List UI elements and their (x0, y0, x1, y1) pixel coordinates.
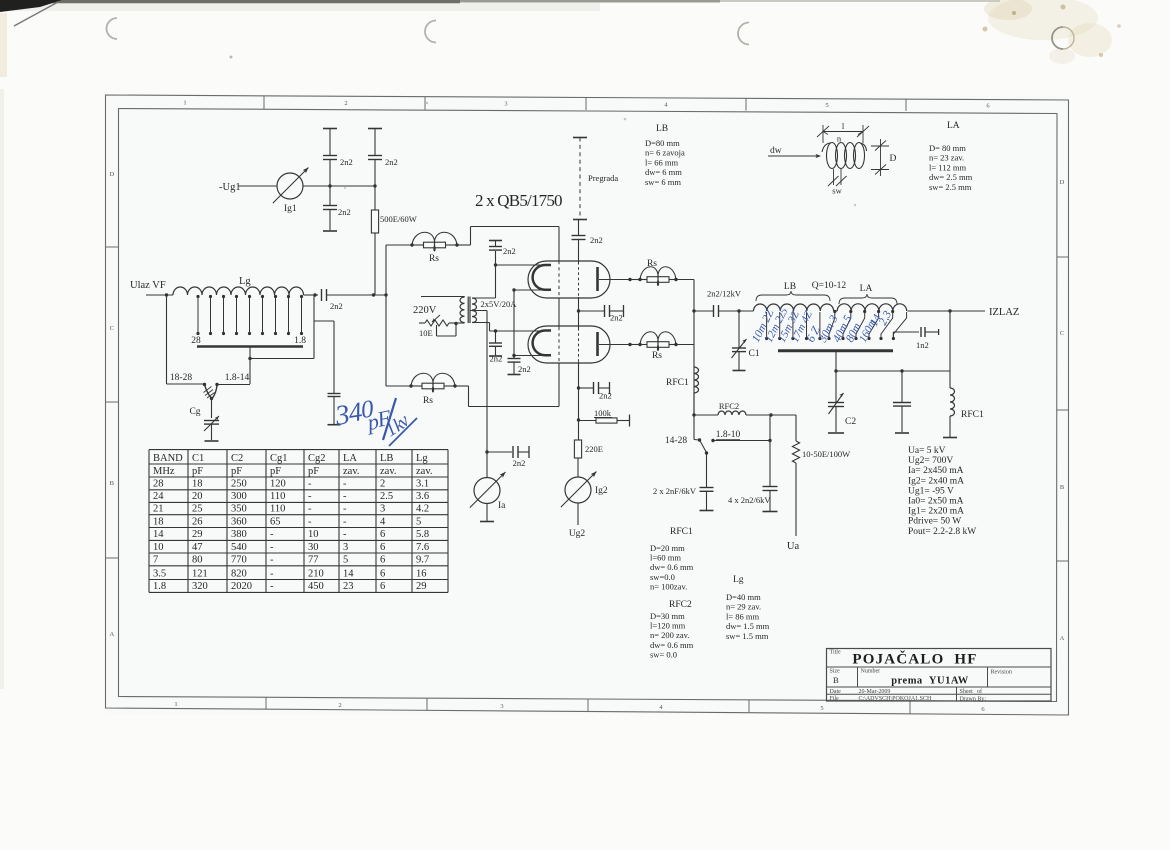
node anode V2 (628, 343, 631, 346)
svg-text:of: of (977, 688, 982, 695)
svg-text:110: 110 (270, 504, 285, 515)
wire (374, 129, 376, 156)
svg-text:6: 6 (380, 555, 385, 566)
svg-text:220E: 220E (585, 444, 603, 454)
variable capacitor C2 (835, 371, 837, 402)
svg-text:File: File (830, 696, 840, 702)
svg-text:2020: 2020 (231, 581, 252, 592)
svg-text:Title: Title (830, 650, 841, 656)
svg-text:Pregrada: Pregrada (588, 173, 618, 183)
svg-text:4.2: 4.2 (416, 504, 429, 515)
wire (386, 244, 412, 246)
hole punch 3 (738, 23, 749, 45)
svg-text:Ug1= -95 V: Ug1= -95 V (908, 486, 954, 496)
svg-text:-: - (270, 542, 274, 553)
svg-text:250: 250 (231, 479, 247, 490)
svg-text:450: 450 (308, 581, 324, 592)
frame bottom zone ticks (265, 697, 267, 709)
frame outer border (106, 95, 1069, 715)
wire bias to input node (374, 233, 376, 295)
svg-text:-: - (343, 504, 347, 515)
wire tank output (908, 310, 986, 312)
svg-text:Date: Date (830, 689, 842, 695)
svg-text:16: 16 (416, 568, 427, 579)
suppressor Rs anode V2 (630, 344, 640, 346)
wire (329, 210, 331, 231)
tank bus bar (778, 349, 893, 352)
svg-text:RFC1: RFC1 (670, 527, 693, 537)
wire input (146, 294, 173, 296)
svg-text:sw=0.0: sw=0.0 (650, 572, 675, 582)
wire Ia to ground (486, 504, 488, 521)
wire (329, 129, 331, 156)
svg-text:LB: LB (380, 453, 393, 464)
svg-text:3.6: 3.6 (416, 491, 429, 502)
svg-text:dw= 6 mm: dw= 6 mm (645, 167, 682, 177)
svg-text:10E: 10E (419, 328, 433, 338)
wire output down (949, 311, 951, 371)
svg-text:26: 26 (192, 516, 203, 527)
svg-text:l= 86 mm: l= 86 mm (726, 611, 760, 621)
svg-text:9.7: 9.7 (416, 555, 429, 566)
hole punch 2 (425, 21, 436, 43)
svg-text:2 x 2nF/6kV: 2 x 2nF/6kV (653, 486, 697, 496)
svg-text:Number: Number (861, 669, 881, 675)
wire RFC2 node down (769, 415, 771, 486)
svg-text:5: 5 (343, 555, 348, 566)
grid line g1 (dashed in tubes) (558, 227, 560, 262)
coil drawing dimension sw (833, 169, 835, 185)
svg-text:2n2: 2n2 (338, 207, 351, 217)
svg-text:n= 23 zav.: n= 23 zav. (929, 153, 964, 163)
title block frame (827, 649, 1052, 702)
svg-text:1: 1 (183, 99, 186, 106)
svg-text:10: 10 (308, 529, 319, 540)
suppressor Rs anode V1 (630, 279, 640, 281)
svg-text:sw= 0.0: sw= 0.0 (650, 649, 677, 659)
svg-text:Ua= 5 kV: Ua= 5 kV (908, 446, 946, 456)
wire link under bus (250, 358, 314, 360)
svg-text:B: B (1060, 484, 1065, 491)
svg-text:D: D (109, 171, 114, 178)
svg-text:540: 540 (231, 542, 247, 553)
wire grid box bottom (469, 406, 560, 408)
svg-text:Lg: Lg (239, 276, 251, 287)
svg-text:4 x 2n2/6kV: 4 x 2n2/6kV (728, 495, 771, 505)
ground bar (328, 424, 341, 426)
suppressor Rs (lower grid) (411, 373, 434, 392)
capacitor 2n2 heater top (495, 251, 497, 265)
svg-text:sw= 2.5 mm: sw= 2.5 mm (929, 182, 972, 192)
wire input down to switch (166, 295, 168, 384)
capacitor 1n2 (892, 332, 894, 339)
screen g2 line top (578, 220, 580, 236)
svg-text:LB: LB (784, 282, 796, 292)
tank coil LB/LA (754, 304, 834, 311)
svg-text:Cg1: Cg1 (270, 453, 288, 464)
capacitor 2n2 cathode (485, 450, 488, 453)
wire secondary center tap (470, 310, 487, 312)
svg-text:D: D (1060, 179, 1065, 186)
svg-text:350: 350 (231, 504, 247, 515)
wire screen down (578, 362, 580, 440)
svg-text:Rs: Rs (423, 396, 433, 406)
svg-text:3: 3 (504, 101, 507, 108)
svg-text:Pdrive= 50 W: Pdrive= 50 W (908, 517, 961, 527)
wire bus to rail (835, 351, 837, 371)
svg-text:Rs: Rs (647, 259, 657, 269)
svg-text:D=30 mm: D=30 mm (650, 611, 685, 621)
capacitor 2n2 screen top (572, 235, 586, 237)
svg-text:RFC1: RFC1 (961, 410, 984, 420)
tube V1 anode lead (599, 279, 630, 281)
svg-text:-: - (308, 516, 312, 527)
svg-text:1.8-10: 1.8-10 (716, 430, 741, 440)
wire tank ground rail (836, 370, 950, 372)
capacitor 2n2 screen lower (579, 387, 594, 389)
capacitor 2 x 2nF/6kV (700, 487, 714, 489)
wire (386, 385, 411, 387)
svg-text:Rs: Rs (429, 254, 439, 264)
shield Pregrada top bar (573, 137, 587, 139)
svg-text:3: 3 (500, 703, 503, 710)
coil drawing dimension l (822, 125, 824, 143)
svg-text:210: 210 (308, 568, 324, 579)
tank coil LA taps (829, 312, 835, 339)
svg-text:C2: C2 (845, 417, 856, 427)
svg-text:Ulaz VF: Ulaz VF (130, 280, 166, 291)
svg-text:380: 380 (231, 529, 247, 540)
svg-text:l=60 mm: l=60 mm (650, 553, 681, 563)
handwritten 340pF/1kV (332, 396, 417, 446)
svg-text:2x5V/20A: 2x5V/20A (481, 299, 518, 309)
capacitor 2n2/12kV coupling (694, 310, 713, 312)
svg-text:-: - (270, 581, 274, 592)
svg-text:10: 10 (153, 542, 164, 553)
svg-text:Revision: Revision (991, 670, 1012, 676)
svg-text:sw= 1.5 mm: sw= 1.5 mm (726, 631, 769, 641)
svg-text:n= 6 zavoja: n= 6 zavoja (645, 148, 685, 158)
svg-text:100k: 100k (594, 408, 612, 418)
capacitor fixed (tank) (901, 371, 903, 402)
svg-text:Size: Size (830, 669, 841, 675)
svg-text:B: B (110, 480, 115, 487)
svg-text:BAND: BAND (153, 453, 183, 464)
wire 220V top lead (421, 296, 465, 298)
ground bar (205, 440, 219, 442)
resistor 220E (574, 440, 581, 458)
meter Ia (486, 452, 488, 477)
svg-text:D=40 mm: D=40 mm (726, 592, 761, 602)
svg-text:C2: C2 (231, 453, 243, 464)
band table grid (149, 449, 448, 451)
meter Ig2 (565, 477, 591, 503)
svg-text:80: 80 (192, 555, 203, 566)
stain top right (988, 0, 1098, 40)
svg-text:1.8-14: 1.8-14 (225, 373, 250, 383)
svg-text:2: 2 (380, 479, 385, 490)
svg-text:25: 25 (192, 504, 203, 515)
svg-text:Sheet: Sheet (960, 689, 974, 695)
svg-text:dw: dw (770, 146, 782, 156)
wire to Ug2 (577, 503, 579, 525)
svg-text:14-28: 14-28 (665, 436, 687, 446)
svg-text:6: 6 (380, 568, 385, 579)
svg-text:820: 820 (231, 568, 247, 579)
wire -Ug1 to meter Ig1 (238, 185, 277, 187)
svg-text:LB: LB (656, 124, 668, 134)
svg-text:14: 14 (343, 568, 354, 579)
svg-text:pF: pF (308, 466, 319, 477)
screen g2 dashed in tube V1 (578, 262, 580, 297)
capacitor 2n2 heater lower (513, 356, 515, 358)
wire cap to grid node (327, 294, 387, 296)
inductor RFC1 output choke (950, 388, 955, 416)
wire coil end down (313, 295, 315, 359)
svg-text:sw= 6 mm: sw= 6 mm (645, 177, 681, 187)
svg-text:Drawn By:: Drawn By: (960, 696, 987, 702)
wire to switch contact (167, 383, 204, 385)
svg-text:n= 200 zav.: n= 200 zav. (650, 630, 689, 640)
svg-text:l= 112 mm: l= 112 mm (929, 162, 966, 172)
wire (457, 244, 471, 246)
svg-text:Lg: Lg (733, 575, 744, 585)
svg-text:18-28: 18-28 (170, 373, 192, 383)
node anode V1 (628, 278, 631, 281)
ground bar (480, 521, 494, 523)
svg-text:18: 18 (192, 479, 203, 490)
inductor Lg (input coil) (173, 287, 304, 295)
coil Lg taps (197, 297, 199, 333)
svg-text:pF: pF (231, 466, 242, 477)
tank coil LB taps (766, 312, 768, 339)
svg-text:770: 770 (231, 555, 247, 566)
wire 1.8-10 contact (713, 440, 770, 442)
svg-text:-: - (270, 568, 274, 579)
svg-text:121: 121 (192, 568, 208, 579)
capacitor 2n2 (bias filter A lower) (323, 205, 337, 207)
svg-text:500E/60W: 500E/60W (380, 214, 417, 224)
svg-text:320: 320 (192, 581, 208, 592)
scanner corner mark (0, 0, 62, 12)
svg-text:20: 20 (192, 491, 203, 502)
svg-text:5.8: 5.8 (416, 529, 429, 540)
svg-text:dw= 2.5 mm: dw= 2.5 mm (929, 172, 973, 182)
svg-text:C: C (110, 325, 114, 332)
svg-text:LA: LA (947, 121, 960, 131)
transformer T1 secondary winding (472, 298, 477, 323)
svg-text:2 x QB5/1750: 2 x QB5/1750 (475, 191, 562, 210)
switch S2 band (693, 415, 695, 440)
hole punch 1 (107, 18, 117, 39)
resistor 10-50E/100W (792, 441, 799, 463)
svg-text:C1: C1 (749, 349, 760, 359)
svg-text:23: 23 (343, 581, 354, 592)
svg-text:Ia= 2x450 mA: Ia= 2x450 mA (908, 466, 964, 476)
tube V2 anode bar (596, 332, 599, 356)
wire grid box top (471, 226, 560, 228)
svg-text:-: - (308, 479, 312, 490)
ground bar (323, 230, 337, 232)
svg-text:sw: sw (832, 186, 842, 196)
rheostat 10E (425, 320, 449, 326)
wire heater bottom v2 (514, 355, 544, 357)
svg-text:2n2: 2n2 (385, 157, 398, 167)
svg-text:A: A (109, 631, 114, 638)
svg-text:dw= 0.6 mm: dw= 0.6 mm (650, 640, 694, 650)
svg-text:Pout= 2.2-2.8 kW: Pout= 2.2-2.8 kW (908, 527, 976, 537)
variable capacitor C1 (738, 311, 740, 348)
svg-text:Ig1: Ig1 (284, 204, 297, 214)
wire switch pole down (706, 453, 708, 487)
svg-text:POJAČALO HF: POJAČALO HF (852, 651, 977, 668)
svg-text:220V: 220V (413, 305, 437, 316)
svg-text:4: 4 (380, 516, 386, 527)
svg-text:zav.: zav. (343, 466, 360, 477)
svg-text:-: - (343, 529, 347, 540)
svg-text:2n2: 2n2 (590, 235, 603, 245)
svg-text:Ug2= 700V: Ug2= 700V (908, 456, 953, 466)
coil drawing turns (827, 143, 838, 169)
svg-text:120: 120 (270, 479, 286, 490)
svg-text:2n2: 2n2 (610, 313, 623, 323)
svg-text:C:\ADVSCH\POKOJA1.SCH: C:\ADVSCH\POKOJA1.SCH (859, 696, 933, 702)
svg-text:-: - (308, 504, 312, 515)
tube V1 QB5/1750 envelope (528, 261, 610, 298)
svg-text:Rs: Rs (652, 351, 662, 361)
left edge strip (0, 13, 7, 77)
screen g2 dashed in tube V2 (578, 328, 580, 362)
svg-text:LA: LA (860, 284, 873, 294)
svg-text:2: 2 (338, 702, 341, 709)
svg-text:C1: C1 (192, 453, 204, 464)
svg-text:Ig1= 2x20 mA: Ig1= 2x20 mA (908, 507, 964, 517)
svg-text:D: D (890, 154, 897, 164)
scratch line (14, 2, 58, 26)
wire bus to link (249, 347, 251, 384)
svg-text:-: - (343, 479, 347, 490)
svg-text:Ug2: Ug2 (569, 529, 586, 539)
feedthrough cap 2n2 upper-right top bar (368, 128, 382, 130)
svg-text:3.1: 3.1 (416, 479, 429, 490)
wire (329, 160, 331, 187)
wire anode bus vertical (693, 280, 695, 416)
wire 1.8-14 contact to bus (217, 384, 250, 386)
tube V1 anode bar (596, 267, 599, 291)
svg-text:2n2: 2n2 (340, 157, 353, 167)
svg-text:-: - (270, 555, 274, 566)
svg-text:Cg2: Cg2 (308, 453, 326, 464)
wire switch pole down (211, 399, 213, 419)
wire coil to cap (304, 294, 319, 296)
shield Pregrada dashed line (579, 138, 581, 220)
wire branch to grounded cap (314, 320, 334, 322)
tube V2 filament (533, 331, 551, 356)
wire (374, 160, 376, 187)
transformer T1 primary winding (460, 297, 465, 323)
svg-text:-: - (270, 529, 274, 540)
svg-text:6: 6 (380, 581, 385, 592)
coil drawing dimension D (871, 145, 889, 147)
wire (676, 279, 694, 281)
capacitor 2n2 input series (321, 289, 323, 301)
wire heater top v2 (472, 322, 490, 324)
capacitor 2n2 (bias filter A upper) (323, 155, 337, 157)
svg-text:-: - (343, 516, 347, 527)
wire (577, 458, 579, 477)
wire heater top (472, 297, 496, 299)
transformer T1 core (467, 297, 469, 324)
svg-text:10-50E/100W: 10-50E/100W (802, 449, 850, 459)
svg-text:Cg: Cg (189, 407, 200, 417)
svg-text:65: 65 (270, 516, 281, 527)
scanner top edge band (0, 0, 460, 4)
frame left zone ticks (106, 246, 119, 248)
svg-text:300: 300 (231, 491, 247, 502)
capacitor 2n2 screen mid (579, 310, 605, 312)
wire (676, 344, 694, 346)
svg-text:3.5: 3.5 (153, 568, 166, 579)
svg-text:1n2: 1n2 (916, 340, 929, 350)
meter Ig1 (277, 173, 303, 199)
svg-text:14: 14 (153, 529, 164, 540)
svg-text:D= 80 mm: D= 80 mm (929, 143, 966, 153)
suppressor Rs (upper grid) (412, 232, 435, 251)
svg-text:A: A (1060, 635, 1065, 642)
svg-text:zav.: zav. (380, 466, 397, 477)
svg-text:2n2: 2n2 (518, 364, 531, 374)
wire screen between tubes (578, 297, 580, 328)
svg-text:Ig2: Ig2 (595, 486, 608, 496)
tube V2 QB5/1750 envelope (528, 326, 610, 363)
svg-text:24: 24 (153, 491, 164, 502)
wire to HV feed (771, 414, 796, 416)
svg-text:D=80 mm: D=80 mm (645, 138, 680, 148)
svg-text:110: 110 (270, 491, 285, 502)
wire (329, 186, 331, 205)
wire RFC1 to RFC2 node (693, 393, 695, 415)
svg-text:1.8: 1.8 (153, 581, 166, 592)
svg-text:1: 1 (174, 701, 177, 708)
paper specks (230, 56, 233, 59)
svg-text:pF: pF (192, 466, 203, 477)
wire (455, 385, 469, 387)
svg-text:n= 29 zav.: n= 29 zav. (726, 602, 761, 612)
svg-text:Q=10-12: Q=10-12 (812, 281, 847, 291)
svg-text:2n2: 2n2 (503, 246, 516, 256)
svg-text:21: 21 (153, 504, 164, 515)
svg-text:prema YU1AW: prema YU1AW (891, 676, 969, 687)
capacitor 2n2 (bias filter B) (368, 155, 382, 157)
svg-text:D=20 mm: D=20 mm (650, 543, 685, 553)
svg-text:47: 47 (192, 542, 203, 553)
svg-text:2n2: 2n2 (330, 301, 343, 311)
frame top zone ticks (263, 96, 265, 109)
resistor 500E/60W (371, 210, 378, 233)
capacitor 340pF (marked) to ground (328, 393, 341, 395)
wire (578, 240, 580, 263)
wire heater join (513, 290, 515, 356)
switch S1 input (203, 383, 206, 386)
svg-text:28: 28 (191, 336, 201, 346)
svg-text:2.5: 2.5 (380, 491, 393, 502)
svg-text:5: 5 (825, 102, 828, 109)
svg-text:Ia0= 2x50 mA: Ia0= 2x50 mA (908, 497, 964, 507)
svg-text:-Ug1: -Ug1 (219, 182, 241, 193)
svg-text:Ua: Ua (787, 541, 800, 552)
svg-text:77: 77 (308, 555, 319, 566)
svg-text:29: 29 (416, 581, 427, 592)
